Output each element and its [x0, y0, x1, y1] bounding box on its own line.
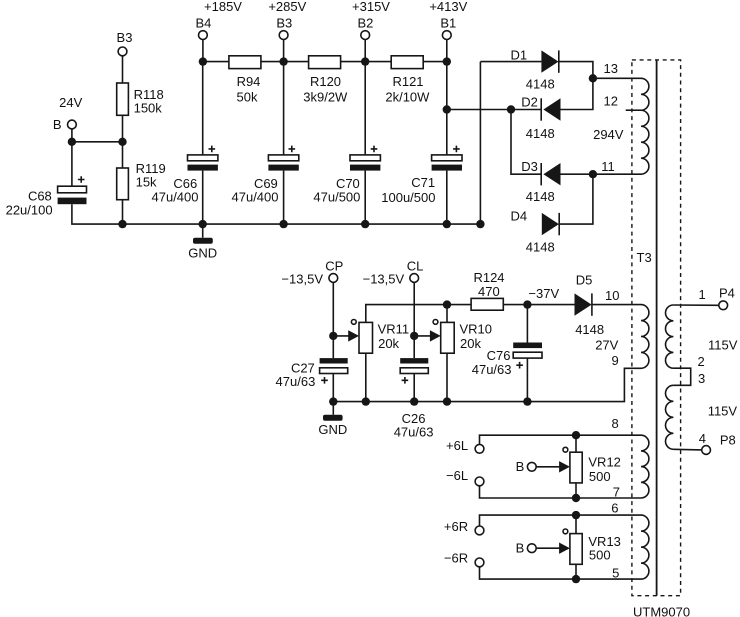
svg-text:C69: C69	[254, 176, 278, 191]
svg-text:C70: C70	[336, 176, 360, 191]
wire -6L to pin7 rail	[480, 486, 642, 498]
wire VR11 top	[366, 305, 447, 323]
svg-text:5: 5	[612, 565, 619, 580]
capacitor C70 47u/500	[313, 62, 380, 225]
node R118/R119/B	[118, 138, 126, 146]
wiper arrow VR12	[536, 461, 570, 472]
svg-text:B4: B4	[195, 16, 211, 31]
wire B1 down to D2 line and C71	[446, 40, 448, 155]
trimmer mark VR11	[351, 320, 356, 325]
capacitor C68 22u/100	[6, 176, 87, 217]
wire CL down	[413, 282, 415, 358]
svg-text:B2: B2	[357, 16, 373, 31]
node rail-C66	[199, 220, 207, 228]
svg-text:B: B	[516, 459, 525, 474]
svg-text:22u/100: 22u/100	[6, 202, 53, 217]
node D2/D3 branch	[507, 105, 515, 113]
svg-text:+6L: +6L	[446, 438, 468, 453]
wire B3 to R118	[122, 56, 124, 83]
svg-text:115V: 115V	[708, 403, 738, 418]
svg-text:VR10: VR10	[460, 322, 493, 337]
trimmer mark VR10	[433, 320, 438, 325]
terminal B 24V	[53, 95, 83, 132]
node CP wiper	[329, 332, 337, 340]
wire gnd rail	[123, 223, 481, 225]
wire R124 left	[447, 304, 471, 306]
node B branch	[68, 138, 76, 146]
wire C68 to gnd rail	[72, 204, 123, 224]
svg-text:P8: P8	[720, 433, 736, 448]
node rail-VR11	[362, 397, 370, 405]
node bus-B1	[443, 57, 451, 65]
transformer winding 6-5	[641, 515, 649, 579]
terminal P4	[719, 286, 735, 310]
transformer winding 8-7	[641, 435, 649, 498]
svg-text:GND: GND	[318, 422, 347, 437]
wiper arrow VR11	[333, 330, 359, 341]
node VR10/R124	[443, 300, 451, 308]
svg-text:GND: GND	[188, 245, 217, 260]
wire pin 1 to P4	[673, 304, 718, 306]
node pin7-VR12	[572, 494, 580, 502]
wire pin 4 to P8	[673, 448, 701, 451]
wire R119 to gnd rail	[122, 200, 124, 224]
svg-text:13: 13	[604, 61, 618, 76]
wire CP down	[332, 282, 334, 358]
svg-text:D2: D2	[521, 95, 538, 110]
resistor R124 470	[471, 270, 504, 310]
resistor R118 150k	[117, 83, 164, 116]
node rail-C71	[443, 220, 451, 228]
svg-text:D3: D3	[521, 159, 538, 174]
svg-text:R94: R94	[237, 74, 261, 89]
diode D2 4148	[521, 95, 560, 141]
capacitor C69 47u/400	[232, 62, 299, 225]
wire VR11 bottom	[365, 353, 367, 401]
wire B down to C68	[71, 129, 73, 186]
svg-text:24V: 24V	[59, 95, 82, 110]
capacitor C26 47u/63	[394, 358, 434, 439]
svg-text:C71: C71	[411, 175, 435, 190]
svg-text:B1: B1	[440, 16, 456, 31]
svg-text:47u/63: 47u/63	[472, 362, 512, 377]
diode D3 4148	[521, 159, 560, 204]
terminal +6R	[444, 519, 484, 535]
diode D5 4148	[575, 273, 605, 337]
svg-text:B3: B3	[276, 16, 292, 31]
wire D1 anode	[480, 61, 541, 63]
transformer secondary winding 3-4	[666, 385, 674, 449]
svg-text:4148: 4148	[526, 189, 555, 204]
svg-text:4148: 4148	[575, 322, 604, 337]
terminal P8	[702, 433, 736, 455]
potentiometer VR13 500	[570, 534, 621, 565]
wire bus B4-B1	[203, 61, 447, 63]
svg-text:11: 11	[601, 159, 615, 174]
wire node11 to winding	[593, 173, 641, 175]
svg-text:15k: 15k	[136, 174, 157, 189]
svg-text:−13,5V: −13,5V	[363, 271, 405, 286]
potentiometer VR12 500	[570, 452, 621, 484]
svg-text:1: 1	[699, 287, 706, 302]
svg-text:R120: R120	[310, 74, 341, 89]
diode D1 4148	[511, 48, 559, 92]
wire node13 to winding	[593, 77, 641, 79]
svg-text:D4: D4	[511, 208, 528, 223]
wire VR10 bottom	[446, 353, 448, 401]
svg-text:47u/400: 47u/400	[232, 190, 279, 205]
svg-text:47u/63: 47u/63	[394, 424, 434, 439]
wire D1 feed vertical from gnd rail	[479, 62, 481, 225]
wire B2 to bus	[364, 40, 366, 62]
svg-text:UTM9070: UTM9070	[633, 605, 690, 617]
svg-text:2: 2	[698, 354, 705, 369]
node rail-R119	[118, 220, 126, 228]
wire D5 to pin 10 winding	[592, 304, 641, 306]
svg-text:100u/500: 100u/500	[381, 190, 435, 205]
wire VR12 bottom	[575, 483, 577, 498]
terminal +6L	[446, 438, 484, 453]
svg-text:+6R: +6R	[444, 519, 468, 534]
wire B4 to bus	[202, 40, 204, 62]
wire D3 branch vertical	[511, 110, 541, 175]
svg-text:B: B	[53, 117, 62, 132]
svg-text:47u/400: 47u/400	[152, 190, 199, 205]
transformer T3 dashed box	[632, 60, 681, 596]
ground GND main	[188, 224, 217, 260]
svg-text:4148: 4148	[526, 239, 555, 254]
svg-text:470: 470	[478, 284, 500, 299]
svg-text:D1: D1	[511, 48, 528, 63]
svg-text:20k: 20k	[460, 336, 481, 351]
wire B to R118/R119 junction	[72, 141, 123, 143]
potentiometer VR10 20k	[441, 322, 492, 354]
svg-text:3k9/2W: 3k9/2W	[303, 90, 348, 105]
svg-text:47u/63: 47u/63	[276, 374, 316, 389]
wiper arrow VR10	[414, 330, 441, 341]
svg-text:20k: 20k	[378, 336, 399, 351]
node 13	[589, 61, 618, 83]
trimmer mark VR13	[563, 529, 568, 534]
node CL wiper	[410, 332, 418, 340]
svg-text:27V: 27V	[595, 337, 618, 352]
wire VR10 top	[446, 305, 448, 323]
svg-text:D5: D5	[576, 273, 593, 288]
svg-text:4148: 4148	[526, 77, 555, 92]
pin 12 tap stub	[604, 93, 642, 110]
svg-text:R121: R121	[392, 74, 423, 89]
diode D4 4148 on gnd rail	[511, 208, 560, 254]
wire R118 to R119	[122, 115, 124, 168]
wire VR13 top	[575, 515, 577, 534]
svg-text:500: 500	[589, 548, 611, 563]
transformer T3 core	[656, 60, 658, 596]
svg-text:10: 10	[605, 288, 619, 303]
terminal B wiper left	[516, 459, 537, 474]
svg-text:4148: 4148	[526, 126, 555, 141]
terminal CP -13,5V	[281, 258, 343, 286]
svg-text:R124: R124	[473, 270, 504, 285]
svg-text:6: 6	[611, 501, 618, 516]
svg-text:VR12: VR12	[588, 455, 621, 470]
svg-text:7: 7	[613, 485, 620, 500]
wire node13 down to D2 line	[561, 78, 593, 109]
wire D1 cathode to node 13	[559, 62, 593, 79]
svg-text:CP: CP	[325, 258, 343, 273]
svg-text:−13,5V: −13,5V	[281, 271, 323, 286]
svg-text:−6R: −6R	[444, 551, 468, 566]
node pin5-VR13	[572, 575, 580, 583]
terminal B4 +185V	[195, 0, 242, 40]
transformer winding 13-12-11	[641, 78, 649, 174]
wire D4 cathode up to node 11	[559, 174, 593, 224]
node rail-D1 branch	[476, 220, 484, 228]
svg-text:+185V: +185V	[204, 0, 242, 14]
svg-text:8: 8	[612, 416, 619, 431]
svg-text:47u/500: 47u/500	[313, 190, 360, 205]
transformer secondary winding 1-2	[666, 305, 674, 368]
wire VR13 bottom	[575, 564, 577, 579]
capacitor C66 47u/400	[152, 62, 218, 225]
svg-text:+315V: +315V	[352, 0, 390, 14]
ground GND mid	[318, 402, 347, 437]
node rail-VR10	[443, 397, 451, 405]
wire +6L to pin8 rail	[480, 435, 642, 444]
trimmer mark VR12	[563, 447, 568, 452]
svg-text:500: 500	[589, 469, 611, 484]
capacitor C71 100u/500	[381, 146, 462, 225]
wire -6R to pin5 rail	[480, 567, 642, 579]
node bus-B3	[279, 57, 287, 65]
svg-text:115V: 115V	[708, 337, 738, 352]
svg-text:−6L: −6L	[446, 468, 468, 483]
capacitor C27 47u/63	[276, 358, 348, 389]
resistor R94 50k	[229, 56, 261, 105]
svg-text:+285V: +285V	[268, 0, 306, 14]
svg-text:4: 4	[699, 431, 706, 446]
svg-text:C66: C66	[173, 176, 197, 191]
wire B1 column to D2	[447, 109, 541, 111]
terminal -6R	[444, 551, 484, 567]
svg-text:50k: 50k	[237, 90, 258, 105]
resistor R120 3k9/2W	[303, 56, 348, 105]
node rail-C69	[279, 220, 287, 228]
wire C27 to rail	[332, 374, 334, 402]
node 11	[589, 159, 615, 178]
terminal B2 +315V	[352, 0, 390, 40]
terminal B3 +285V	[268, 0, 306, 40]
capacitor C76 47u/63	[472, 305, 542, 402]
transformer winding 10-9	[641, 305, 649, 369]
node rail-C76	[523, 397, 531, 405]
svg-text:−37V: −37V	[528, 286, 559, 301]
terminal CL -13,5V	[363, 258, 424, 286]
svg-text:2k/10W: 2k/10W	[385, 90, 430, 105]
wire +6R to pin6 rail	[480, 515, 642, 526]
resistor R121 2k/10W	[385, 56, 430, 105]
wire VR12 top	[575, 435, 577, 452]
wire mid rail	[333, 368, 641, 401]
resistor R119 15k	[117, 161, 166, 200]
svg-text:9: 9	[612, 353, 619, 368]
svg-text:B: B	[516, 541, 525, 556]
svg-text:12: 12	[604, 93, 618, 108]
node B1/D2	[443, 105, 451, 113]
wire D3 to node 11	[561, 173, 593, 175]
svg-text:B3: B3	[117, 30, 133, 45]
potentiometer VR11 20k	[359, 322, 409, 354]
wire B3 to bus	[283, 40, 285, 62]
node rail-C26	[410, 397, 418, 405]
node -37V	[523, 286, 559, 309]
node rail-C70	[361, 220, 369, 228]
svg-text:3: 3	[698, 371, 705, 386]
terminal B3 left top	[117, 30, 133, 56]
node rail-C27	[329, 397, 337, 405]
svg-text:+413V: +413V	[429, 0, 467, 14]
svg-text:150k: 150k	[134, 101, 163, 116]
terminal B1 +413V	[429, 0, 467, 40]
node pin8-VR12	[572, 431, 580, 439]
node bus-B2	[361, 57, 369, 65]
svg-text:294V: 294V	[593, 127, 624, 142]
svg-text:VR11: VR11	[378, 322, 410, 337]
svg-text:T3: T3	[637, 250, 652, 265]
wire R124 to -37V node	[503, 304, 574, 306]
svg-text:P4: P4	[719, 286, 735, 301]
node pin6-VR13	[572, 511, 580, 519]
svg-text:CL: CL	[407, 258, 424, 273]
wire C26 to rail	[413, 374, 415, 402]
node bus-B4	[199, 57, 207, 65]
svg-text:C68: C68	[28, 188, 52, 203]
terminal B wiper left 2	[516, 541, 537, 556]
terminal -6L	[446, 468, 484, 486]
wiper arrow VR13	[536, 543, 570, 554]
wire secondary series link 2-3	[673, 368, 690, 385]
